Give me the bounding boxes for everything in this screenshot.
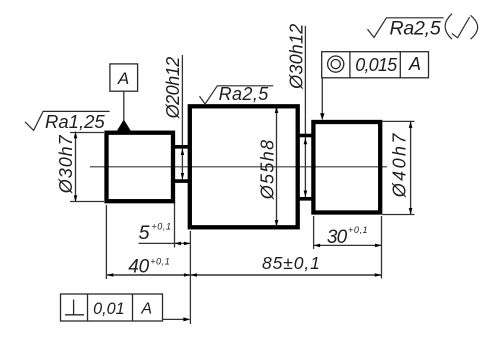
svg-text:40: 40 [128,256,149,277]
svg-text:Ra1,25: Ra1,25 [45,111,105,132]
svg-text:+0,1: +0,1 [348,225,368,235]
svg-text:Ø55h8: Ø55h8 [258,139,278,201]
svg-text:Ra2,5: Ra2,5 [390,18,441,40]
svg-text:+0,1: +0,1 [150,257,170,267]
svg-text:Ø30h12: Ø30h12 [287,24,307,90]
svg-text:0,015: 0,015 [355,55,398,75]
svg-text:85±0,1: 85±0,1 [262,253,321,273]
svg-text:30: 30 [327,227,348,248]
svg-text:Ø30h7: Ø30h7 [56,134,76,194]
svg-text:Ra2,5: Ra2,5 [219,84,270,104]
svg-text:Ø20h12: Ø20h12 [163,57,183,120]
svg-text:A: A [140,301,152,318]
svg-text:A: A [408,54,421,74]
svg-text:A: A [117,69,129,88]
svg-text:Ø40h7: Ø40h7 [390,131,410,198]
svg-text:0,01: 0,01 [93,300,125,318]
svg-text:5: 5 [139,222,150,244]
svg-text:+0,1: +0,1 [151,222,171,232]
